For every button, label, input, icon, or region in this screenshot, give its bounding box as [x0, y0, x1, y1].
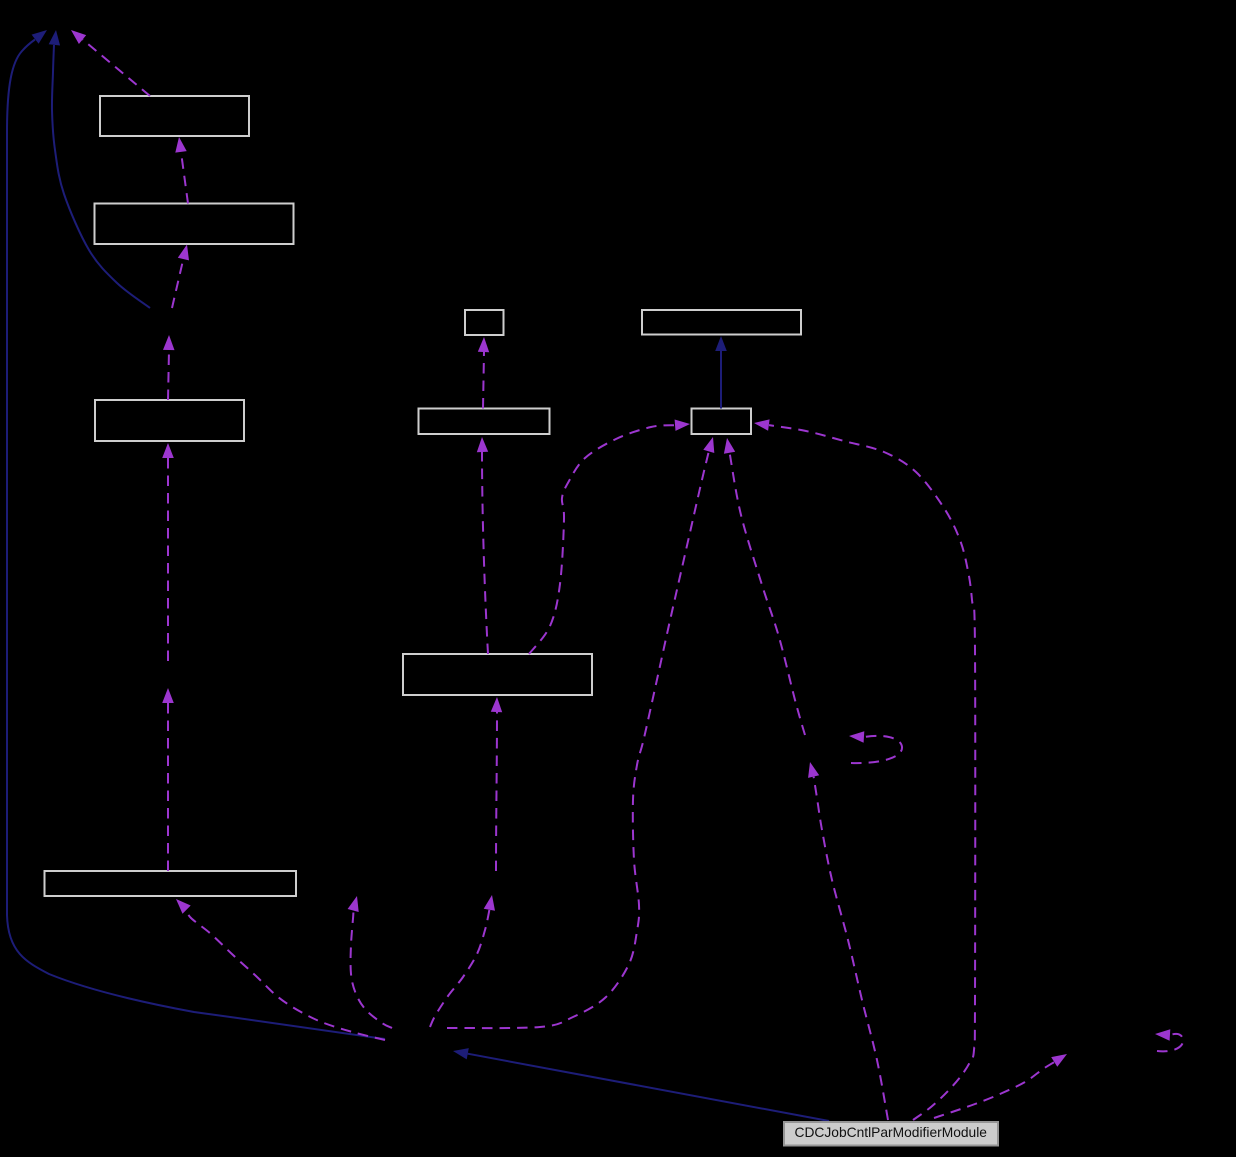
- edge F->N8 usage (purple dashed): [496, 712, 497, 871]
- arrowhead of edge N7->N6 at node N6: [715, 336, 727, 351]
- node N5 (class box, row 4 middle): [419, 409, 550, 435]
- edge N1->A usage (purple dashed): [83, 40, 150, 97]
- node N4 (small class box, row 3 middle): [465, 310, 504, 335]
- arrowhead of edge N3->C at node C: [163, 335, 175, 350]
- arrowhead of edge N8->N7 at left side of N7: [675, 420, 690, 431]
- edge N8->N5 usage (purple dashed): [482, 452, 488, 654]
- edge N3->C usage (purple dashed): [168, 350, 169, 400]
- arrowhead of edge H->N7 at bottom-right of N7: [724, 438, 735, 454]
- edge C->N2 usage (purple dashed): [172, 259, 183, 308]
- arrowhead of edge B->E at node E: [348, 896, 359, 912]
- arrowhead of edge N2->N1 at node N1: [175, 137, 186, 153]
- arrowhead of edge B->N7 at bottom-left of N7: [703, 437, 714, 453]
- edge B->N7 usage (purple dashed S-curve): [447, 451, 709, 1028]
- arrowhead of edge Main->N7 at right side of N7: [754, 419, 770, 430]
- node N7 (small class box, row 4 right): [692, 409, 752, 435]
- node N2 (class box, row 2 left): [95, 204, 294, 245]
- edge Main->G usage (purple dashed): [934, 1062, 1054, 1118]
- arrowhead of edge Main->B at node B: [453, 1048, 469, 1059]
- arrowhead of edge Main->H at node H: [808, 762, 819, 778]
- edge Main->B inheritance (blue solid straight): [468, 1054, 829, 1121]
- edge N8->N7 usage (purple dashed left arc): [529, 425, 675, 654]
- edge Main->N7 usage (purple dashed right arc): [769, 425, 975, 1120]
- node N1 (class box, row 1 left): [100, 96, 249, 136]
- node N8 (class box, row 5 middle): [403, 654, 592, 695]
- edge C->A inheritance (blue solid curve): [52, 45, 150, 308]
- arrowhead of edge B->A at node A: [32, 30, 47, 44]
- arrowhead of edge N8->N5 at node N5: [477, 437, 488, 452]
- edge N7->N6 inheritance (blue solid vertical): [720, 351, 722, 409]
- svg-text:CDCJobCntlParModifierModule: CDCJobCntlParModifierModule: [795, 1125, 988, 1140]
- arrowhead of edge F->N8 at node N8: [491, 697, 502, 712]
- edge N2->N1 usage (purple dashed): [181, 152, 188, 204]
- arrowhead of edge B->N9 at node N9: [176, 899, 191, 914]
- arrowhead of edge N5->N4 at node N4: [478, 337, 489, 352]
- edge B->N9 usage (purple dashed curve): [187, 910, 385, 1040]
- node N6 (class box, row 3 right): [642, 310, 801, 335]
- edge N9->D usage (purple dashed vertical): [167, 703, 169, 871]
- edge N5->N4 usage (purple dashed): [483, 352, 484, 409]
- edge H->H self-loop (purple dashed): [851, 736, 902, 763]
- edge Main->H usage (purple dashed): [814, 777, 888, 1120]
- arrowhead of edge D->N3 at node N3: [162, 443, 174, 458]
- edge B->F usage (purple dashed curve): [430, 910, 489, 1027]
- edge B->E usage (purple dashed curve): [351, 911, 392, 1029]
- edge B->A inheritance (blue solid, far-left long curve): [7, 40, 385, 1040]
- main node CDCJobCntlParModifierModule (highlighted, filled grey): [784, 1122, 998, 1146]
- node N3 (class box, row 4 left): [95, 400, 244, 441]
- edge G->G self-loop (purple dashed): [1157, 1034, 1183, 1052]
- edge H->N7 usage (purple dashed): [730, 453, 805, 735]
- arrowhead of edge C->A at node A: [49, 30, 60, 46]
- arrowhead of edge N9->D at node D: [162, 688, 174, 703]
- arrowhead of edge N1->A at node A: [71, 30, 86, 44]
- arrowhead of edge B->F at node F: [484, 895, 495, 911]
- arrowhead of edge Main->G at node G: [1051, 1054, 1067, 1067]
- node N9 (class box, row 6 left): [45, 871, 297, 896]
- edge D->N3 usage (purple dashed vertical): [167, 458, 169, 661]
- arrowhead of G self-loop at right side of G: [1155, 1029, 1170, 1040]
- arrowhead of H self-loop at right side of H: [849, 731, 864, 742]
- arrowhead of edge C->N2 at node N2: [178, 245, 189, 261]
